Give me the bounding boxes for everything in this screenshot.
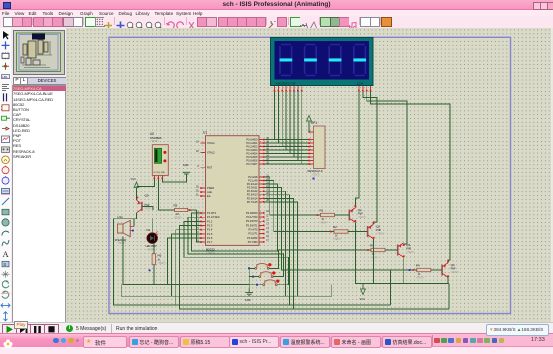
wire P2.0 to R1 [265,177,321,215]
svg-text:RST: RST [207,166,213,170]
svg-text:Q5: Q5 [145,194,149,198]
svg-text:GND: GND [245,298,251,302]
wire speaker to Q5 collector [133,219,135,227]
svg-text:LED-RED: LED-RED [146,245,157,248]
wire seg to RP1 pin 7 [294,156,312,158]
svg-text:P0.3/AD3: P0.3/AD3 [246,148,258,152]
svg-text:R6: R6 [158,254,162,258]
wire VCC to Q5 emitter [136,188,138,200]
svg-text:P0.5/AD5: P0.5/AD5 [246,155,258,159]
svg-text:PNP: PNP [451,268,456,271]
wire seg to RP1 pin 8 [298,160,312,162]
svg-text:P0.0/AD0: P0.0/AD0 [246,138,258,142]
blue marker button K1 [248,267,250,269]
wire segB display to U1 P0.1 [265,92,279,144]
power terminal VCC (left) [131,177,139,187]
blue marker button K2 [252,276,254,278]
wire P2.6 to lower loop [265,198,294,308]
wire D1 anode [151,219,153,233]
wire digit2 to Q2 collector [363,92,377,225]
wire R2 to Q2 base [348,231,368,233]
svg-text:<TEXT>: <TEXT> [145,207,154,210]
resistor R4 [416,264,431,280]
wire digit3 to Q3 collector [367,92,407,247]
svg-text:P1.5: P1.5 [207,232,213,236]
svg-text:P0.4/AD4: P0.4/AD4 [246,152,258,156]
svg-text:PSEN: PSEN [207,186,214,190]
display DS1 7SEG-MPX4-CA [271,38,374,86]
svg-text:P2.1/A9: P2.1/A9 [248,179,258,183]
wire Q4 emitter [447,277,449,283]
svg-text:P1.4: P1.4 [207,228,213,232]
svg-text:P3.5/T1: P3.5/T1 [248,232,258,236]
svg-text:XTAL1: XTAL1 [207,141,215,145]
transistor Q1 PNP [349,208,367,223]
wire R1 to Q1 base [335,214,350,216]
svg-text:P2.0/A8: P2.0/A8 [248,175,258,179]
wire P2.1 to R2 [265,181,334,232]
wire segD display to U1 P0.3 [265,92,286,151]
transistor Q2 PNP [368,224,386,239]
wire Q5 base to R5 [142,206,153,210]
wire D1 cathode to R6 [152,243,154,253]
wire U2 DQ to R5 node [157,179,159,210]
svg-text:P0.7/AD7: P0.7/AD7 [246,162,258,166]
svg-text:P1.0/T2: P1.0/T2 [207,211,217,215]
svg-text:P3.2/INT0: P3.2/INT0 [246,219,258,223]
wire P2.7 to lower loop [265,202,298,296]
U2 pins [154,175,164,179]
svg-text:P3.1/TXD: P3.1/TXD [246,215,257,219]
svg-text:EA: EA [207,194,211,198]
svg-text:P3.4/T0: P3.4/T0 [248,228,258,232]
svg-text:<TEXT>: <TEXT> [333,238,342,241]
svg-text:R5: R5 [174,204,178,208]
svg-text:P1.7: P1.7 [207,240,213,244]
svg-text:<TEXT>: <TEXT> [174,216,183,219]
wire P1.2 to K3 [184,221,289,284]
display DS1 digit pins [358,86,371,92]
resistor R3 [370,244,385,260]
svg-text:GND: GND [161,172,166,174]
svg-text:<TEXT>: <TEXT> [118,242,127,245]
svg-text:R2: R2 [333,225,337,229]
svg-text:Q2: Q2 [376,225,380,229]
svg-text:<TEXT>: <TEXT> [451,271,460,274]
push button K2 [259,271,276,277]
svg-text:P2.3/A11: P2.3/A11 [247,186,258,190]
resistor R1 [320,209,335,225]
svg-text:P0.6/AD6: P0.6/AD6 [246,159,258,163]
svg-text:P3.7/RD: P3.7/RD [248,240,258,244]
wire R4 to Q4 base [431,269,442,271]
svg-text:Q4: Q4 [451,263,455,267]
ground (U2) [183,163,191,174]
resistor R6 [152,254,167,266]
wire P1.3 bottom loop [180,226,449,309]
ground (buttons) [245,289,253,303]
transistor Q4 PNP [442,263,460,278]
svg-text:<TEXT>: <TEXT> [158,262,167,265]
svg-text:R4: R4 [416,264,420,268]
svg-text:1234: 1234 [357,81,364,85]
temperature sensor U2 DS18B20 [150,132,168,175]
svg-text:P2.2/A10: P2.2/A10 [247,182,258,186]
wire Q5 collector rail [114,213,391,305]
power terminal VCC (RP1) [307,116,312,125]
transistor Q5 PNP [137,194,154,214]
wire P2.4 to lower loop [265,191,286,296]
wire RP1 common to VCC [308,122,311,132]
svg-text:P0.2/AD2: P0.2/AD2 [246,145,258,149]
wire seg to RP1 pin 6 [290,153,312,155]
blue marker near RP1 [313,178,315,180]
svg-text:<TEXT>: <TEXT> [370,257,379,260]
svg-text:P1.2: P1.2 [207,219,213,223]
svg-text:P3.3/INT1: P3.3/INT1 [246,223,258,227]
wire K1 to ground [249,268,255,288]
U1 right pins [246,138,270,244]
wire P2.5 to lower loop [265,195,290,305]
wire segF display to U1 P0.5 [265,92,294,158]
wire P1.5 bottom loop [171,234,200,296]
svg-text:VCC: VCC [360,297,366,301]
wire K2 to ground [249,276,259,278]
wire P1.0 to K1 [192,213,279,268]
svg-text:VCC: VCC [131,177,137,181]
wire emitter rail [355,222,449,283]
svg-text:P0.1/AD1: P0.1/AD1 [246,141,258,145]
svg-text:PNP: PNP [358,213,363,216]
svg-text:<TEXT>: <TEXT> [376,233,385,236]
resistor pack RP1 RESPACK-8 [308,121,326,177]
wire R5 to P1.7 [197,210,201,242]
wire segG display to U1 P0.6 [265,92,298,161]
blue marker button K3 [256,284,258,286]
wire R6 to ground rail [153,265,155,285]
svg-text:P2.6/A14: P2.6/A14 [247,196,258,200]
svg-text:P1.3: P1.3 [207,224,213,228]
wire U2 GND pin to ground [162,174,186,182]
svg-text:RESPACK-8: RESPACK-8 [308,169,324,173]
push button K1 [255,263,272,269]
wire speaker return to ground rail [123,237,249,285]
wire seg to RP1 pin 4 [282,146,311,148]
svg-text:ABCDEFG DP: ABCDEFG DP [276,81,296,85]
resistor R2 [333,225,348,241]
wire K3 to ground [249,284,263,286]
svg-text:U2: U2 [150,132,154,136]
svg-text:P2.7/A15: P2.7/A15 [247,200,258,204]
svg-text:<TEXT>: <TEXT> [147,248,156,251]
svg-text:P3.6/WR: P3.6/WR [247,236,258,240]
transistor Q3 PNP [398,243,416,258]
svg-text:XTAL2: XTAL2 [207,151,215,155]
svg-text:P2.4/A12: P2.4/A12 [247,189,258,193]
speaker LS1 [115,215,131,245]
wire Q3 emitter [403,257,405,283]
wire digit4 to Q4 collector [371,92,450,263]
svg-text:P2.5/A13: P2.5/A13 [247,193,258,197]
svg-text:<TEXT>: <TEXT> [416,277,425,280]
wire seg to RP1 pin 2 [274,139,311,141]
svg-text:D1: D1 [147,228,151,232]
wire lower loop [121,285,332,297]
wire P2.2 to R3 [265,184,371,250]
wire Q2 emitter [373,239,375,284]
wire rail up to R4 node [390,270,392,305]
speaker pins [130,227,134,231]
svg-text:<TEXT>: <TEXT> [406,251,415,254]
wire P1.1 to K2 [188,217,284,276]
wire digit1 to Q1 collector [355,92,359,208]
svg-text:RP1: RP1 [311,121,317,125]
resistor R5 [158,204,197,220]
svg-text:DS18B20: DS18B20 [150,136,162,140]
svg-text:U1: U1 [203,131,207,135]
wire P1.6 to ground rail [168,238,201,285]
LED D1 LED-RED [146,228,159,251]
wire segC display to U1 P0.2 [265,92,283,147]
svg-text:PNP: PNP [376,229,381,232]
svg-text:P1.1/T2EX: P1.1/T2EX [207,215,220,219]
microcontroller U1 80C52 [203,131,259,256]
svg-text:<TEXT>: <TEXT> [312,174,322,177]
U1 left pins [196,141,220,244]
push button K3 [263,280,280,286]
svg-text:LS1: LS1 [118,215,124,219]
sheet border [109,37,511,313]
wire P2.3 to R4 [265,188,417,270]
wire segA display to U1 P0.0 [265,92,275,140]
svg-text:PNP: PNP [406,248,411,251]
svg-text:SPEAKER: SPEAKER [115,239,127,242]
svg-text:<TEXT>: <TEXT> [150,140,160,143]
svg-text:<TEXT>: <TEXT> [320,222,329,225]
wire segDP display to U1 P0.7 [265,92,302,165]
power terminal VCC (emitter rail) [360,284,366,302]
display DS1 segment pins [274,86,303,92]
svg-text:P3.0/RXD: P3.0/RXD [246,211,258,215]
blue marker speaker [132,230,134,232]
svg-text:Q1: Q1 [358,208,362,212]
wire seg to RP1 pin 3 [278,142,311,144]
svg-text:<TEXT>: <TEXT> [358,216,367,219]
wire seg to RP1 pin 9 [302,163,312,165]
svg-text:P1.6: P1.6 [207,236,213,240]
wire rail to bottom loop [448,284,450,309]
wire U2 VCC pin to VCC [137,179,155,187]
svg-text:R1: R1 [320,209,324,213]
wire segE display to U1 P0.4 [265,92,290,154]
wire R3 to Q3 base [385,249,398,251]
svg-text:GND: GND [183,163,189,167]
wire seg to RP1 pin 5 [286,149,311,151]
svg-text:ALE: ALE [207,190,212,194]
blue marker R6 [149,269,151,271]
wire P1.4 bottom loop [176,230,201,305]
